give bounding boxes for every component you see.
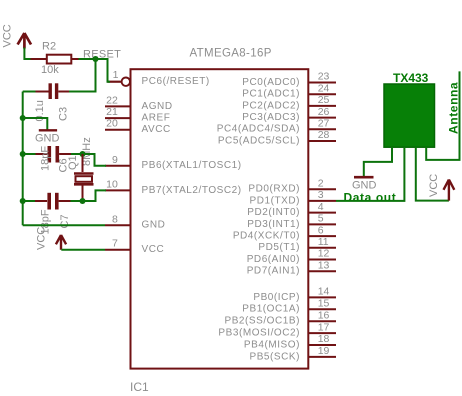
svg-text:PB7(XTAL2/TOSC2): PB7(XTAL2/TOSC2) [142, 185, 242, 196]
svg-text:PD1(TXD): PD1(TXD) [249, 195, 300, 206]
wire XTAL2 node to pin 10 [83, 190, 107, 201]
svg-text:15: 15 [318, 298, 330, 310]
svg-text:PB5(SCK): PB5(SCK) [249, 351, 300, 362]
wire R2 to RESET node [71, 58, 79, 60]
svg-text:PC4(ADC4/SDA): PC4(ADC4/SDA) [217, 124, 300, 135]
svg-text:PB0(ICP): PB0(ICP) [253, 292, 300, 303]
svg-text:17: 17 [318, 321, 330, 333]
svg-text:24: 24 [318, 82, 330, 94]
svg-text:PB6(XTAL1/TOSC1): PB6(XTAL1/TOSC1) [142, 160, 242, 171]
wire C7 to XTAL2 node [59, 200, 71, 202]
wire RESET node down to C3 [69, 59, 96, 92]
svg-text:26: 26 [318, 106, 330, 118]
pin 4 stub [308, 212, 336, 214]
wire antenna [426, 71, 459, 159]
wire R2 lead to RESET junction [79, 58, 96, 60]
pin 16 stub [308, 320, 336, 322]
svg-text:10: 10 [106, 178, 118, 190]
svg-text:Q1: Q1 [67, 155, 79, 170]
svg-text:13: 13 [318, 260, 330, 272]
capacitor C3 [50, 83, 56, 99]
pin 2 stub [308, 188, 336, 190]
svg-text:16: 16 [318, 309, 330, 321]
pin 3 stub [308, 200, 336, 202]
svg-text:18: 18 [318, 333, 330, 345]
svg-text:9: 9 [112, 154, 118, 166]
pin 23 stub [308, 82, 336, 84]
svg-text:VCC: VCC [36, 227, 48, 250]
node junction rail/C7 [20, 198, 26, 204]
svg-text:PD2(INT0): PD2(INT0) [247, 207, 300, 218]
resistor R2 left lead [31, 58, 47, 60]
wire XTAL1 node to pin 9 [83, 154, 107, 166]
svg-text:Antenna: Antenna [447, 82, 461, 134]
pin 18 stub [308, 344, 336, 346]
svg-text:TX433: TX433 [393, 71, 429, 85]
transmitter module TX433 body [384, 84, 435, 147]
svg-text:PD4(XCK/T0): PD4(XCK/T0) [233, 231, 300, 242]
node junction rail/GND [20, 115, 26, 121]
svg-text:27: 27 [318, 118, 330, 130]
pin 6 stub [308, 235, 336, 237]
svg-text:PB1(OC1A): PB1(OC1A) [242, 304, 300, 315]
svg-text:20: 20 [106, 118, 118, 130]
wire VCC to R2 [24, 48, 31, 60]
pin 9 stub [105, 165, 131, 167]
wire GND rail (left vertical) [22, 92, 24, 226]
capacitor C7 [49, 193, 57, 210]
svg-text:PC2(ADC2): PC2(ADC2) [242, 100, 300, 111]
svg-text:4: 4 [318, 201, 324, 213]
pin 28 stub [308, 140, 336, 142]
svg-text:22: 22 [106, 94, 118, 106]
svg-text:AVCC: AVCC [142, 124, 171, 135]
svg-text:PD5(T1): PD5(T1) [258, 242, 300, 253]
wire rail to C6 [23, 153, 36, 155]
node junction XTAL2 [80, 198, 86, 204]
pin 15 stub [308, 308, 336, 310]
pin 26 stub [308, 117, 336, 119]
svg-text:IC1: IC1 [130, 380, 149, 394]
pin 5 stub [308, 223, 336, 225]
resistor R2 body [47, 55, 72, 64]
wire RESET node to pin 1 [96, 59, 111, 82]
wire Data out: pin 3 to TX433 pin 2 [336, 147, 404, 201]
capacitor C6 [49, 146, 57, 163]
svg-text:PD0(RXD): PD0(RXD) [248, 184, 300, 195]
wire VCC to pin 7 [61, 249, 105, 251]
svg-text:10k: 10k [41, 64, 59, 76]
node junction XTAL1 [80, 151, 86, 157]
svg-text:PC6(/RESET): PC6(/RESET) [142, 76, 210, 87]
svg-text:AGND: AGND [142, 101, 173, 112]
svg-text:7: 7 [112, 238, 118, 250]
svg-text:VCC: VCC [2, 24, 14, 47]
wire rail to GND symbol [23, 118, 48, 130]
svg-text:PD6(AIN0): PD6(AIN0) [247, 254, 300, 265]
svg-text:C7: C7 [59, 214, 71, 228]
svg-text:3: 3 [318, 189, 324, 201]
svg-text:GND: GND [142, 220, 166, 231]
svg-text:11: 11 [318, 236, 329, 248]
power VCC symbol top-left [18, 33, 31, 49]
pin 24 stub [308, 93, 336, 95]
svg-text:12: 12 [318, 248, 330, 260]
pin 12 stub [308, 259, 336, 261]
svg-text:PC5(ADC5/SCL): PC5(ADC5/SCL) [218, 135, 300, 146]
pin 1 stub (PC6/RESET) [108, 78, 131, 86]
svg-text:PB2(SS/OC1B): PB2(SS/OC1B) [224, 316, 300, 327]
pin 14 stub [308, 296, 336, 298]
svg-text:Data out: Data out [344, 190, 397, 204]
svg-text:6: 6 [318, 224, 324, 236]
svg-text:8: 8 [112, 213, 118, 225]
svg-text:PD7(AIN1): PD7(AIN1) [247, 266, 300, 277]
svg-text:PC1(ADC1): PC1(ADC1) [242, 89, 300, 100]
pin 8 stub [105, 224, 131, 226]
svg-text:PB4(MISO): PB4(MISO) [244, 339, 300, 350]
svg-text:PB3(MOSI/OC2): PB3(MOSI/OC2) [218, 328, 300, 339]
pin 10 stub [105, 189, 131, 191]
wire C7 lead to XTAL2 node [71, 200, 83, 202]
wire C3 lead to rail [23, 91, 36, 93]
wire C6 lead to XTAL1 node [71, 153, 83, 155]
svg-text:VCC: VCC [428, 174, 440, 197]
pin 17 stub [308, 332, 336, 334]
svg-text:28: 28 [318, 129, 330, 141]
svg-text:AREF: AREF [142, 113, 171, 124]
pin 7 stub [105, 249, 131, 251]
svg-text:GND: GND [35, 132, 60, 144]
power VCC symbol bottom-left [56, 235, 66, 250]
pin 22 stub [105, 105, 131, 107]
node RESET junction [93, 56, 99, 62]
node junction rail/C6 [20, 151, 26, 157]
svg-text:21: 21 [106, 106, 118, 118]
svg-text:1: 1 [113, 69, 119, 81]
capacitor C3 right lead [58, 91, 69, 93]
crystal Q1 [74, 154, 94, 201]
svg-text:R2: R2 [42, 41, 56, 53]
pin 11 stub [308, 247, 336, 249]
svg-text:C3: C3 [58, 107, 70, 121]
svg-text:5: 5 [318, 213, 324, 225]
pin 25 stub [308, 105, 336, 107]
wire TX433 pin 3 to VCC [416, 147, 449, 201]
svg-text:19: 19 [318, 345, 330, 357]
ground symbol (TX433) [354, 176, 374, 179]
wire rail to pin 8 GND [23, 224, 105, 226]
svg-text:2: 2 [318, 177, 324, 189]
capacitor C7 left lead [35, 200, 47, 202]
svg-text:14: 14 [318, 286, 330, 298]
pin 13 stub [308, 270, 336, 272]
svg-text:PC3(ADC3): PC3(ADC3) [242, 112, 300, 123]
pin 21 stub [105, 117, 131, 119]
svg-text:23: 23 [318, 71, 330, 83]
pin 20 stub [105, 129, 131, 131]
svg-text:VCC: VCC [142, 244, 165, 255]
svg-text:ATMEGA8-16P: ATMEGA8-16P [190, 48, 272, 60]
IC U1: IC1 ATMEGA8-16P body [131, 69, 309, 368]
ground symbol (near C3) [39, 129, 57, 131]
wire rail to C7 [23, 200, 36, 202]
wire TX433 pin1 to ground [364, 147, 392, 176]
svg-text:PD3(INT1): PD3(INT1) [247, 219, 300, 230]
svg-text:25: 25 [318, 94, 330, 106]
capacitor C6 left lead [36, 153, 48, 155]
svg-text:18pF: 18pF [40, 146, 52, 171]
wire C3 left to GND rail [35, 91, 49, 93]
svg-text:PC0(ADC0): PC0(ADC0) [242, 77, 300, 88]
power VCC symbol (TX433) [444, 180, 455, 201]
wire C6 to XTAL1 node [59, 153, 71, 155]
pin 27 stub [308, 128, 336, 130]
pin 19 stub [308, 356, 336, 358]
